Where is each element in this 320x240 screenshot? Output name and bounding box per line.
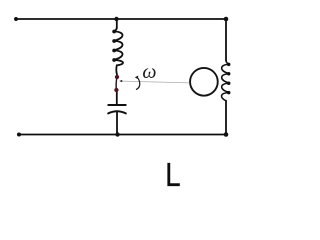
svg-text:L: L: [165, 156, 180, 189]
svg-text:ω: ω: [142, 61, 156, 83]
